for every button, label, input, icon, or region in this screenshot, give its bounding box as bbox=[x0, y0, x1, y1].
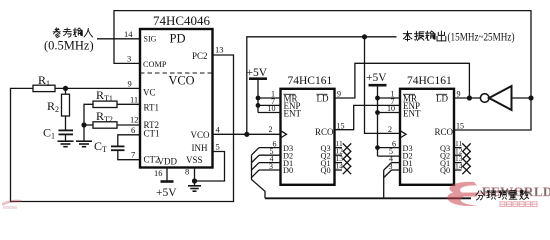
wire : +5V to ENT pin10 U3 bbox=[378, 112, 401, 114]
svg-text:COMP: COMP bbox=[143, 60, 167, 69]
resistor RT2 bbox=[81, 122, 86, 127]
svg-text:VSS: VSS bbox=[186, 155, 203, 165]
wire : VCO pin 4 to counter1 clock pin 2 bbox=[213, 133, 281, 135]
watermark (decorative) bbox=[447, 182, 550, 207]
wire : inverter input from RCO2 node bbox=[512, 97, 532, 99]
wire : +5V to ENT pin10 U2 bbox=[258, 112, 281, 114]
wire : U2 D1 stub + bus entry bbox=[259, 162, 281, 164]
wire : U2 Q3 output stub pin 11 (unused) bbox=[335, 147, 343, 149]
svg-text:VC: VC bbox=[143, 88, 156, 98]
svg-text:+5V: +5V bbox=[247, 67, 268, 79]
svg-text:6: 6 bbox=[131, 125, 135, 135]
wire : feedback top rail from inverter to COMP bbox=[114, 11, 531, 98]
wire : RCO pin15 U3 right and up to feedback bbox=[454, 98, 531, 130]
svg-text:VCO: VCO bbox=[169, 74, 195, 88]
svg-text:PC2: PC2 bbox=[192, 51, 208, 61]
svg-text:15: 15 bbox=[456, 122, 464, 131]
no-connect X mark on U3 Q3 bbox=[462, 143, 470, 151]
wire : +5V to ENP pin7 U2 bbox=[258, 104, 281, 106]
svg-text:D0: D0 bbox=[283, 166, 293, 175]
node : local oscillator output label bbox=[403, 31, 412, 41]
wire : +5V to MR pin1 U2 bbox=[258, 97, 281, 99]
resistor RT1 bbox=[84, 104, 93, 125]
no-connect X mark on U2 Q1 bbox=[343, 158, 351, 166]
svg-text:CT1: CT1 bbox=[144, 129, 160, 139]
wire : U3 Q1 output stub pin 13 (unused) bbox=[454, 162, 462, 164]
svg-text:14: 14 bbox=[124, 29, 133, 39]
power +5V at VDD pin 16 bbox=[166, 168, 168, 181]
wire : preset data bus rail bbox=[265, 197, 471, 199]
svg-text:74HC161: 74HC161 bbox=[407, 75, 452, 87]
wire : U2 D0 stub + bus entry bbox=[259, 169, 281, 171]
wire : U2 bus vertical with jog to rail bbox=[252, 155, 266, 198]
node : clock input triangle U3 bbox=[400, 131, 406, 138]
wire : U3 Q2 output stub pin 12 (unused) bbox=[454, 154, 462, 156]
svg-text:ENT: ENT bbox=[403, 109, 421, 119]
svg-text:7: 7 bbox=[131, 150, 135, 160]
wire : U2 Q1 output stub pin 13 (unused) bbox=[335, 162, 343, 164]
wire : U3 Q3 output stub pin 11 (unused) bbox=[454, 147, 462, 149]
svg-text:RT1: RT1 bbox=[144, 103, 159, 113]
no-connect X mark on U2 Q2 bbox=[343, 151, 351, 159]
capacitor CT between CT1 pin6 and CT2 pin7 bbox=[118, 135, 140, 147]
wire : PC2 pin13 out, down, along bottom, up to R1 bbox=[11, 55, 234, 202]
svg-text:9: 9 bbox=[457, 90, 461, 99]
svg-text:11: 11 bbox=[130, 95, 138, 105]
wire : U2 Q2 output stub pin 12 (unused) bbox=[335, 154, 343, 156]
svg-text:Q0: Q0 bbox=[440, 166, 450, 175]
svg-text:3: 3 bbox=[127, 54, 131, 64]
ground : VSS pin 8 bbox=[194, 168, 196, 186]
wire : INH pin 5 to VSS ground bbox=[195, 152, 225, 182]
no-connect X mark on U3 Q1 bbox=[462, 158, 470, 166]
wire : VCO up to output rail bbox=[247, 37, 397, 135]
counter U2 : 74HC161 body bbox=[281, 89, 335, 185]
svg-text:INH: INH bbox=[192, 143, 208, 153]
wire : rail down to counter2 clock pin 2 bbox=[365, 37, 401, 134]
svg-text:8: 8 bbox=[185, 167, 189, 177]
svg-text:VCO: VCO bbox=[191, 130, 211, 140]
svg-text:5: 5 bbox=[216, 142, 220, 152]
svg-text:74HC161: 74HC161 bbox=[288, 75, 333, 87]
inverter U4 (NOT gate, pointing left) bbox=[480, 94, 489, 103]
svg-text:VDD: VDD bbox=[158, 157, 178, 167]
svg-text:74HC4046: 74HC4046 bbox=[153, 13, 211, 28]
no-connect X mark on U3 Q0 bbox=[462, 166, 470, 174]
capacitor C1 bbox=[65, 116, 67, 130]
no-connect X mark on U3 Q2 bbox=[462, 151, 470, 159]
resistor R1 bbox=[33, 85, 55, 91]
svg-text:Q0: Q0 bbox=[321, 166, 331, 175]
svg-text:+5V: +5V bbox=[366, 72, 387, 84]
wire : +5V to MR pin1 U3 bbox=[378, 97, 401, 99]
svg-text:LD: LD bbox=[436, 94, 448, 104]
node : preset number label (divide preset) bbox=[476, 191, 485, 200]
svg-text:PD: PD bbox=[170, 32, 186, 46]
node REF : reference input label bbox=[53, 28, 60, 38]
wire : U3 bus vertical to rail bbox=[383, 170, 385, 198]
op-amp U1 : 74HC4046 PLL IC body bbox=[140, 29, 213, 168]
svg-text:9: 9 bbox=[128, 79, 132, 89]
wire : U2 D2 stub + bus entry bbox=[259, 154, 281, 156]
wire : +5V to D3 pin6 U3 bbox=[378, 147, 401, 149]
wire : RCO pin15 U2 to ENP pin7 U3 bbox=[335, 105, 401, 129]
wire : reference input to SIG pin 14 bbox=[97, 38, 140, 40]
svg-text:16: 16 bbox=[154, 168, 163, 178]
PD/VCO divider dashed line bbox=[140, 72, 213, 74]
svg-text:13: 13 bbox=[215, 45, 224, 55]
svg-text:RCO: RCO bbox=[315, 127, 334, 137]
svg-text:2: 2 bbox=[269, 125, 273, 134]
svg-text:LD: LD bbox=[317, 94, 329, 104]
wire : RT2 to pin 12 bbox=[117, 124, 140, 126]
wire : U2 D3 stub + bus entry bbox=[259, 147, 281, 149]
wire : U3 D1 stub + bus entry bbox=[392, 162, 401, 164]
no-connect X mark on U2 Q0 bbox=[343, 166, 351, 174]
ground : below RT junction bbox=[83, 125, 85, 141]
svg-text:RCO: RCO bbox=[435, 127, 454, 137]
wire : +5V to D2 pin5 U3 bbox=[378, 155, 401, 157]
wire : U2 Q0 output stub pin 14 (unused) bbox=[335, 169, 343, 171]
wire : inverter output to LD node bbox=[454, 97, 480, 99]
resistor R2 bbox=[65, 88, 67, 94]
svg-text:SIG: SIG bbox=[144, 35, 157, 44]
wire : R1 to VC pin 9 bbox=[55, 87, 140, 89]
svg-text:(0.5MHz): (0.5MHz) bbox=[44, 39, 94, 53]
wire : U3 D0 stub + bus entry bbox=[392, 169, 401, 171]
counter U3 : 74HC161 body bbox=[400, 89, 454, 185]
svg-text:14: 14 bbox=[455, 162, 463, 171]
svg-text:(15MHz~25MHz): (15MHz~25MHz) bbox=[448, 32, 515, 44]
wire : LD pin9 U2 to LD pin9 U3 / inverter output bbox=[335, 63, 470, 98]
svg-text:2: 2 bbox=[388, 125, 392, 134]
svg-text:9: 9 bbox=[337, 90, 341, 99]
no-connect X mark on U2 Q3 bbox=[343, 143, 351, 151]
svg-text:ENT: ENT bbox=[284, 109, 302, 119]
node : clock input triangle U2 bbox=[281, 131, 287, 138]
svg-text:14: 14 bbox=[336, 162, 344, 171]
wire : U3 Q0 output stub pin 14 (unused) bbox=[454, 169, 462, 171]
svg-text:D0: D0 bbox=[403, 166, 413, 175]
node A junction dot bbox=[63, 86, 68, 91]
ground : below C1 bbox=[65, 134, 67, 141]
svg-text:12: 12 bbox=[130, 115, 139, 125]
svg-text:+5V: +5V bbox=[156, 187, 177, 199]
wire : RT1 to pin 11 bbox=[117, 103, 140, 105]
node : rail junction to counter2 clock bbox=[362, 34, 367, 39]
